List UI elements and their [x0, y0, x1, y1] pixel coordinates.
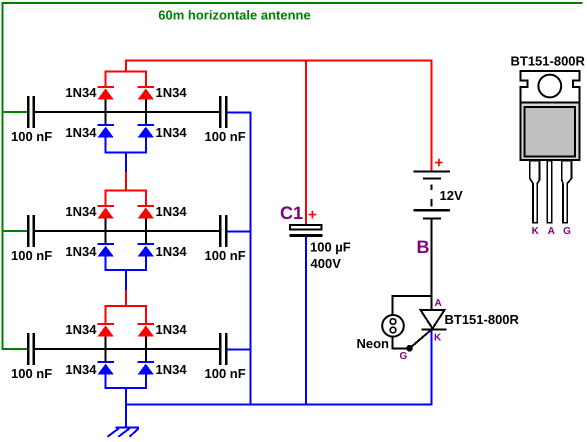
- thyristor BT151-800R symbol: [421, 310, 447, 330]
- diode 1N34 bridge 3 right bottom (blue): [138, 362, 155, 375]
- wire: bridge 1 right anode riser (red): [145, 71, 147, 88]
- bridge 3: red top bus: [105, 305, 147, 307]
- wire: bridge 3 right anode riser (red): [145, 305, 147, 324]
- wire: bridge1-bridge2 connector red part: [125, 172, 127, 191]
- svg-text:1N34: 1N34: [65, 244, 97, 259]
- wire: bridge 2 left cathode drop (blue): [105, 257, 107, 271]
- wire: antenna left feed line (green): [2, 2, 4, 350]
- wire: blue stub cap to right bus, row 2: [228, 231, 252, 233]
- svg-text:1N34: 1N34: [65, 322, 97, 337]
- svg-text:+: +: [435, 155, 444, 172]
- wire: C1 positive lead (red): [305, 61, 307, 225]
- wire: blue stub cap to right bus, row 1: [228, 112, 252, 114]
- wire: bridge1-bridge2 connector blue part: [125, 153, 127, 172]
- wire: bridge 3 right black segment below mid: [145, 349, 147, 362]
- TO-220 leg A (middle): [547, 161, 552, 223]
- diode 1N34 bridge 1 right bottom (blue): [138, 125, 155, 138]
- svg-text:1N34: 1N34: [156, 85, 188, 100]
- wire: top red bus and drop to battery: [126, 61, 432, 172]
- capacitor 100nF left row 1: [28, 96, 34, 128]
- TO-220 leg G (right): [562, 161, 572, 223]
- wire: antenna top line (green): [2, 2, 583, 4]
- svg-text:1N34: 1N34: [156, 125, 188, 140]
- wire: bridge 2 left black segment above mid: [105, 219, 107, 231]
- svg-text:G: G: [400, 351, 408, 362]
- bridge 2: red top bus: [105, 190, 147, 192]
- capacitor 100nF right row 3: [220, 333, 226, 365]
- wire: cathode to ground bus (blue): [431, 331, 433, 405]
- svg-text:60m horizontale antenne: 60m horizontale antenne: [158, 8, 310, 23]
- wire: bridge 2 left black segment below mid: [105, 231, 107, 244]
- bridge 3: blue bottom bus: [105, 387, 147, 389]
- capacitor C1 100uF 400V (electrolytic): [290, 225, 323, 237]
- diode 1N34 bridge 1 left top (red): [97, 87, 114, 100]
- svg-text:1N34: 1N34: [156, 322, 188, 337]
- wire: bridge 2 right anode riser (red): [145, 190, 147, 207]
- capacitor 100nF right row 1: [220, 96, 226, 128]
- capacitor 100nF right row 2: [220, 215, 226, 247]
- wire: bridge2-bridge3 connector red part: [125, 290, 127, 307]
- junction dot at gate: [406, 345, 413, 352]
- ground symbol: [108, 428, 140, 437]
- wire: C1 negative lead (blue): [305, 237, 307, 405]
- diode 1N34 bridge 3 right top (red): [138, 324, 155, 337]
- svg-text:1N34: 1N34: [65, 204, 97, 219]
- wire: bridge 3 right cathode drop (blue): [145, 375, 147, 389]
- wire: bridge 2 left anode riser (red): [105, 190, 107, 207]
- wire: bridge2-bridge3 connector blue part: [125, 270, 127, 290]
- svg-text:+: +: [308, 207, 317, 224]
- svg-text:Neon: Neon: [357, 336, 390, 351]
- diode 1N34 bridge 2 left bottom (blue): [97, 244, 114, 257]
- svg-text:A: A: [548, 226, 555, 237]
- neon lamp: [382, 315, 404, 337]
- wire: bridge 1 left anode riser (red): [105, 71, 107, 88]
- diode 1N34 bridge 2 right top (red): [138, 206, 155, 219]
- wire: bridge 1 right black segment above mid: [145, 100, 147, 112]
- svg-text:A: A: [435, 298, 442, 309]
- svg-text:B: B: [417, 237, 430, 257]
- wire: neon bottom lead to gate junction: [393, 337, 410, 349]
- wire: bridge1 center top riser (red): [125, 60, 127, 73]
- TO-220 leg K (left): [530, 161, 540, 223]
- svg-text:BT151-800R: BT151-800R: [511, 54, 586, 69]
- bridge 1: red top bus: [105, 71, 147, 73]
- wire: bridge 2 right cathode drop (blue): [145, 257, 147, 271]
- wire: bridge 3 left anode riser (red): [105, 305, 107, 324]
- wire: green stub antenna to cap, row 3: [2, 348, 27, 350]
- svg-text:G: G: [563, 226, 571, 237]
- svg-text:12V: 12V: [440, 188, 463, 203]
- diode 1N34 bridge 1 right top (red): [138, 87, 155, 100]
- capacitor 100nF left row 2: [28, 215, 34, 247]
- wire: branch to neon lamp (black): [393, 296, 432, 316]
- wire: gate lead diagonal: [410, 330, 432, 349]
- wire: green stub antenna to cap, row 1: [2, 111, 27, 113]
- wire: bridge 2 right black segment above mid: [145, 219, 147, 231]
- wire: bottom ground bus (blue): [125, 404, 433, 406]
- diode 1N34 bridge 2 right bottom (blue): [138, 244, 155, 257]
- wire: bridge 1 left cathode drop (blue): [105, 138, 107, 154]
- svg-text:1N34: 1N34: [156, 244, 188, 259]
- wire: battery negative lead down (black): [431, 219, 433, 310]
- svg-text:100 nF: 100 nF: [11, 129, 52, 144]
- svg-text:C1: C1: [280, 203, 303, 223]
- svg-text:100 nF: 100 nF: [205, 129, 246, 144]
- wire: bridge 2 right black segment below mid: [145, 231, 147, 244]
- svg-text:100 µF: 100 µF: [310, 240, 351, 255]
- svg-text:100 nF: 100 nF: [11, 248, 52, 263]
- svg-text:1N34: 1N34: [65, 362, 97, 377]
- diode 1N34 bridge 3 left bottom (blue): [97, 362, 114, 375]
- svg-text:BT151-800R: BT151-800R: [445, 312, 520, 327]
- wire: bridge 3 left black segment below mid: [105, 349, 107, 362]
- wire: bridge3 bottom drop to ground bus (blue): [125, 388, 127, 428]
- TO-220 mounting hole: [538, 75, 561, 98]
- wire: bridge 1 right cathode drop (blue): [145, 138, 147, 154]
- wire: bridge 3 right black segment above mid: [145, 337, 147, 349]
- bridge 2: blue bottom bus: [105, 269, 147, 271]
- wire: bridge 1 left black segment above mid: [105, 100, 107, 112]
- svg-text:100 nF: 100 nF: [11, 366, 52, 381]
- wire: bridge 1 right black segment below mid: [145, 112, 147, 125]
- battery 12V: [414, 172, 451, 219]
- wire: mid row black wire, row 1: [35, 111, 219, 113]
- svg-text:1N34: 1N34: [156, 204, 188, 219]
- diode 1N34 bridge 2 left top (red): [97, 206, 114, 219]
- TO-220 metal tab with notches: [521, 71, 580, 103]
- wire: bridge 3 left cathode drop (blue): [105, 375, 107, 389]
- wire: right vertical blue bus (caps return): [250, 112, 252, 406]
- wire: bridge 1 left black segment below mid: [105, 112, 107, 125]
- svg-text:100 nF: 100 nF: [205, 248, 246, 263]
- svg-text:K: K: [532, 226, 540, 237]
- svg-text:1N34: 1N34: [156, 362, 188, 377]
- wire: mid row black wire, row 2: [35, 230, 219, 232]
- wire: blue stub cap to right bus, row 3: [228, 349, 252, 351]
- TO-220 plastic body: [521, 103, 580, 161]
- diode 1N34 bridge 3 left top (red): [97, 324, 114, 337]
- wire: mid row black wire, row 3: [35, 348, 219, 350]
- wire: green stub antenna to cap, row 2: [2, 230, 27, 232]
- svg-text:1N34: 1N34: [65, 85, 97, 100]
- svg-text:K: K: [434, 333, 442, 344]
- wire: bridge 3 left black segment above mid: [105, 337, 107, 349]
- bridge 1: blue bottom bus: [105, 152, 147, 154]
- diode 1N34 bridge 1 left bottom (blue): [97, 125, 114, 138]
- svg-text:100 nF: 100 nF: [205, 366, 246, 381]
- svg-text:400V: 400V: [311, 256, 342, 271]
- svg-text:1N34: 1N34: [65, 125, 97, 140]
- capacitor 100nF left row 3: [28, 333, 34, 365]
